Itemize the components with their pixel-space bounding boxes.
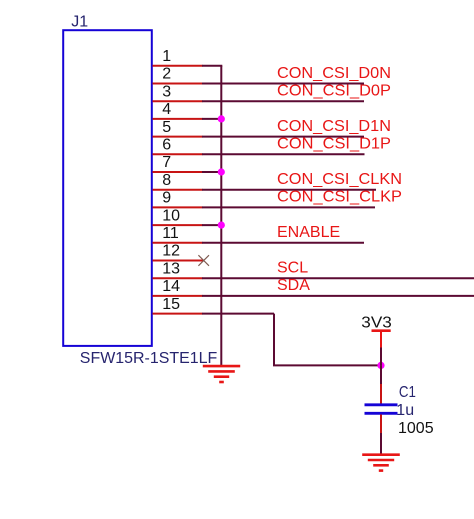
svg-text:CON_CSI_D0P: CON_CSI_D0P (277, 83, 391, 100)
svg-text:2: 2 (162, 66, 171, 83)
svg-text:12: 12 (162, 243, 180, 260)
svg-text:3: 3 (162, 83, 171, 100)
svg-text:CON_CSI_D0N: CON_CSI_D0N (277, 65, 391, 82)
svg-text:9: 9 (162, 190, 171, 207)
svg-text:CON_CSI_D1N: CON_CSI_D1N (277, 118, 391, 135)
svg-text:15: 15 (162, 296, 180, 313)
svg-text:4: 4 (162, 101, 171, 118)
svg-text:3V3: 3V3 (361, 315, 392, 332)
svg-text:13: 13 (162, 260, 180, 277)
svg-text:1: 1 (162, 48, 171, 65)
svg-text:1005: 1005 (398, 420, 434, 437)
svg-text:CON_CSI_CLKP: CON_CSI_CLKP (277, 189, 402, 206)
svg-text:J1: J1 (71, 14, 88, 31)
svg-text:ENABLE: ENABLE (277, 224, 340, 241)
svg-text:SFW15R-1STE1LF: SFW15R-1STE1LF (80, 350, 218, 367)
svg-text:14: 14 (162, 278, 180, 295)
svg-text:7: 7 (162, 154, 171, 171)
svg-text:5: 5 (162, 119, 171, 136)
svg-text:SCL: SCL (277, 260, 308, 277)
svg-text:CON_CSI_D1P: CON_CSI_D1P (277, 136, 391, 153)
svg-text:6: 6 (162, 137, 171, 154)
svg-text:C1: C1 (399, 384, 416, 401)
svg-text:10: 10 (162, 207, 180, 224)
svg-text:11: 11 (162, 225, 179, 242)
svg-text:1u: 1u (396, 402, 414, 419)
svg-text:SDA: SDA (277, 277, 310, 294)
svg-text:8: 8 (162, 172, 171, 189)
svg-text:CON_CSI_CLKN: CON_CSI_CLKN (277, 171, 402, 188)
